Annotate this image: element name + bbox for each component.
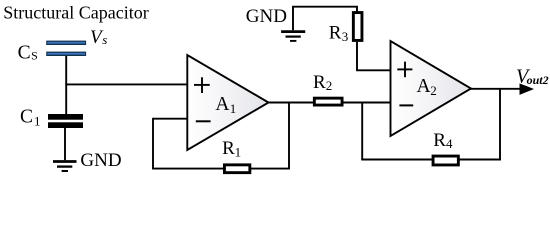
svg-text:C: C [20, 107, 33, 128]
resistor R2 [314, 98, 342, 105]
label A1 [215, 94, 236, 116]
svg-text:A: A [215, 94, 229, 115]
capacitor C1 [48, 114, 83, 128]
wire R4 right to output vertical [459, 159, 501, 161]
svg-text:R: R [313, 72, 326, 93]
capacitor CS (blue structural capacitor plates) [47, 41, 86, 55]
svg-text:1: 1 [235, 145, 242, 160]
label Vs [90, 27, 107, 48]
svg-text:C: C [18, 43, 31, 64]
svg-text:GND: GND [246, 6, 287, 27]
label CS [18, 43, 38, 64]
svg-text:Structural Capacitor: Structural Capacitor [3, 3, 148, 23]
resistor R3 [353, 13, 362, 41]
output arrowhead [520, 83, 535, 95]
svg-text:1: 1 [230, 101, 237, 116]
label R2 [313, 72, 332, 93]
svg-text:s: s [102, 32, 107, 47]
ground (top) [281, 32, 305, 41]
wire CS bottom plate down to node A and C1 [65, 56, 67, 115]
wire A1 feedback right vertical [288, 103, 290, 170]
svg-text:out2: out2 [527, 73, 549, 87]
resistor R4 [433, 156, 458, 165]
svg-text:2: 2 [430, 83, 437, 98]
wire R1 right to feedback vertical [250, 168, 290, 170]
label Vout2 [516, 66, 549, 88]
wire A2 feedback bottom left [361, 159, 433, 161]
wire A1 feedback bottom left [152, 168, 224, 170]
wire A1 output to R2 [268, 102, 315, 104]
op-amp A2 [391, 41, 472, 136]
wire junction down to A2 feedback [361, 103, 363, 160]
wire R3 bottom to A2 + input [356, 42, 390, 70]
wire A1 feedback left vertical [152, 118, 154, 169]
wire A2 output [470, 88, 522, 90]
svg-text:R: R [433, 130, 446, 151]
svg-text:2: 2 [326, 78, 333, 93]
A1 minus sign [196, 120, 211, 122]
resistor R1 [224, 165, 249, 173]
A2 minus sign [399, 104, 413, 106]
svg-text:1: 1 [34, 113, 41, 128]
ground (bottom left) [53, 162, 77, 172]
svg-text:R: R [222, 138, 235, 159]
wire R2 to A2 - input [342, 102, 391, 104]
A2 plus sign [397, 62, 412, 78]
op-amp A1 [187, 55, 268, 150]
label C1 [20, 107, 41, 129]
label R3 [329, 23, 349, 45]
wire A1 - input [153, 118, 187, 120]
svg-text:GND: GND [80, 150, 121, 171]
wire C1 to ground [64, 128, 66, 160]
svg-text:4: 4 [446, 136, 453, 151]
svg-text:S: S [31, 49, 38, 63]
svg-text:A: A [417, 76, 431, 97]
svg-text:R: R [329, 23, 342, 44]
wire node A to A1 + input [65, 83, 187, 85]
A1 plus sign [194, 77, 210, 93]
label R4 [433, 130, 453, 151]
label R1 [222, 138, 241, 160]
wire A2 feedback right vertical [499, 89, 501, 161]
wire top gnd corner to R3 top [293, 7, 357, 31]
label A2 [417, 76, 437, 98]
svg-text:3: 3 [342, 29, 349, 44]
